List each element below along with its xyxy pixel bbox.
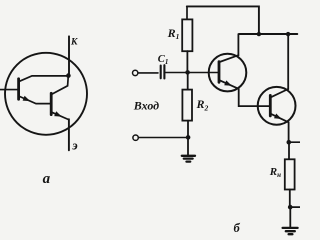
svg-text:К: К (70, 38, 78, 48)
svg-text:R1: R1 (167, 26, 180, 41)
svg-text:Rн: Rн (269, 166, 281, 179)
svg-text:Вход: Вход (133, 99, 159, 113)
svg-text:а: а (43, 171, 51, 187)
svg-text:R2: R2 (196, 97, 209, 112)
svg-text:б: б (234, 221, 241, 235)
svg-text:C1: C1 (158, 54, 169, 66)
svg-text:э: э (71, 138, 78, 153)
